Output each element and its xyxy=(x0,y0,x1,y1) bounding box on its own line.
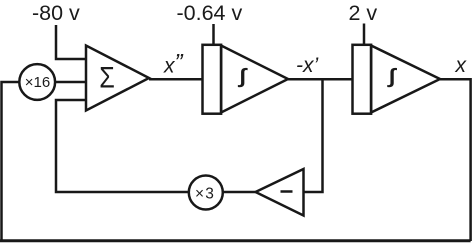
svg-text:-0.64 v: -0.64 v xyxy=(177,1,243,25)
svg-text:∫: ∫ xyxy=(237,65,248,88)
svg-text:∫: ∫ xyxy=(387,65,398,88)
svg-text:x”: x” xyxy=(163,50,184,78)
svg-text:×3: ×3 xyxy=(195,185,215,202)
svg-text:-80 v: -80 v xyxy=(32,1,80,25)
svg-text:Σ: Σ xyxy=(99,60,115,94)
svg-text:×16: ×16 xyxy=(25,74,50,91)
svg-text:-x’: -x’ xyxy=(296,54,318,77)
svg-text:x: x xyxy=(455,54,468,77)
svg-text:2 v: 2 v xyxy=(349,1,378,25)
